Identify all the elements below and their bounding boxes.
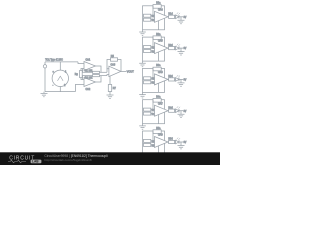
- LED D3: [176, 75, 181, 81]
- wire to LED anode: [174, 78, 177, 80]
- wire port to top rail: [44, 62, 46, 65]
- svg-text:R3d: R3d: [168, 76, 173, 78]
- wire op-amp output: [167, 110, 170, 112]
- logo waveform: [8, 160, 26, 162]
- resistor R4a (feedback, on top edge): [153, 97, 161, 103]
- LED D1: [176, 12, 181, 18]
- footer title text: [44, 154, 107, 162]
- svg-text:0V: 0V: [184, 80, 187, 82]
- svg-text:R1d: R1d: [168, 14, 173, 16]
- ground at LED: [178, 79, 185, 86]
- net label: [184, 142, 187, 144]
- ground at LED: [178, 142, 185, 149]
- wire op-amp ground stub: [158, 146, 160, 155]
- svg-text:OA1: OA1: [86, 59, 91, 62]
- footer bar: [0, 152, 220, 165]
- resistor R5a (feedback, on top edge): [153, 128, 161, 134]
- wire thermocouple top terminal: [59, 62, 61, 70]
- resistor R1c (input): [144, 18, 157, 22]
- wire op-amp ground stub: [158, 52, 160, 61]
- svg-text:OA6: OA6: [158, 71, 163, 74]
- wire resistor outputs to op-amp inputs: [151, 47, 155, 51]
- wire op-amp output: [167, 16, 170, 18]
- wire row1 to OA3 -: [107, 69, 109, 73]
- svg-text:R2d: R2d: [168, 45, 173, 47]
- wire LED cathode to net flag: [179, 78, 183, 80]
- comparator stage 5: frame wire loop: [143, 131, 165, 155]
- svg-text:0V: 0V: [184, 111, 187, 113]
- wire resistor outputs to op-amp inputs: [151, 141, 155, 145]
- wire top rail: [45, 61, 78, 63]
- resistor R4b (input): [144, 108, 157, 112]
- svg-text:0V: 0V: [184, 142, 187, 144]
- wire feedback from inverting input up to top edge: [152, 37, 154, 47]
- svg-text:OA3: OA3: [111, 63, 116, 66]
- svg-text:TC1 Type K 25C: TC1 Type K 25C: [45, 59, 63, 62]
- wire to LED anode: [174, 47, 177, 49]
- resistor Rg (gain): [75, 69, 83, 80]
- svg-text:R3a: R3a: [156, 65, 161, 67]
- svg-text:LAB: LAB: [32, 160, 39, 164]
- op-amp OA3: [109, 63, 121, 76]
- svg-text:0V: 0V: [184, 48, 187, 50]
- svg-text:OA8: OA8: [158, 134, 163, 137]
- wire port to bottom rail: [44, 68, 46, 92]
- wire OA1 output: [96, 66, 102, 72]
- comparator stage 2: frame wire loop: [143, 37, 165, 61]
- resistor R2: [84, 75, 107, 80]
- wire OA1 - to row1: [83, 69, 85, 73]
- wire op-amp ground stub: [158, 115, 160, 124]
- ground at frame corner: [139, 124, 146, 130]
- svg-text:http://circuitlab.com/c/5qgdmb: http://circuitlab.com/c/5qgdmbkum8: [44, 158, 92, 162]
- wire LED cathode to net flag: [179, 47, 183, 49]
- net label: [184, 17, 187, 19]
- svg-text:0V: 0V: [184, 17, 187, 19]
- resistor R1a (feedback, on top edge): [153, 3, 161, 9]
- LED D4: [176, 106, 181, 112]
- resistor R5d (output series): [168, 139, 174, 144]
- op-amp OA6: [155, 71, 169, 85]
- wire OA2 - to row2: [83, 76, 85, 80]
- wire to LED anode: [174, 16, 177, 18]
- svg-text:OA5: OA5: [158, 40, 163, 43]
- resistor R5b (input): [144, 139, 157, 143]
- svg-text:R2a: R2a: [156, 34, 161, 36]
- svg-text:OA4: OA4: [158, 8, 163, 11]
- wire resistor outputs to op-amp inputs: [151, 110, 155, 114]
- resistor R2b (input): [144, 46, 157, 50]
- ground at frame corner: [139, 61, 146, 67]
- comparator stage 3: frame wire loop: [143, 68, 165, 92]
- svg-text:R5a: R5a: [156, 128, 161, 130]
- CircuitLab logo: [9, 156, 35, 162]
- wire resistor outputs to op-amp inputs: [151, 78, 155, 82]
- resistor R4c (input): [144, 112, 157, 116]
- resistor R5c (input): [144, 143, 157, 147]
- svg-text:R2 10k: R2 10k: [85, 77, 93, 80]
- wire bottom rail: [45, 91, 75, 93]
- wire OA2 - input stub: [83, 79, 85, 81]
- net label: [184, 80, 187, 82]
- svg-text:R4a: R4a: [156, 97, 161, 99]
- net label: [184, 48, 187, 50]
- resistor R2a (feedback, on top edge): [153, 34, 161, 40]
- ground at frame corner: [139, 155, 146, 161]
- LED D5: [176, 138, 181, 144]
- wire OA1 - input stub: [83, 68, 85, 70]
- wire op-amp ground stub: [158, 21, 160, 30]
- wire top rail to OA1 +: [78, 62, 84, 64]
- wire op-amp ground stub: [158, 83, 160, 92]
- wire resistor outputs to op-amp inputs: [151, 16, 155, 20]
- op-amp OA8: [155, 134, 169, 148]
- wire feedback from inverting input up to top edge: [152, 6, 154, 16]
- resistor R2d (output series): [168, 45, 174, 50]
- logo LAB badge: [31, 160, 42, 164]
- ground below R7: [107, 95, 114, 98]
- svg-text:R1a: R1a: [156, 3, 161, 5]
- wire op-amp output: [167, 78, 170, 80]
- resistor R5 (feedback): [111, 55, 118, 61]
- svg-text:R4d: R4d: [168, 107, 173, 109]
- wire feedback from inverting input up to top edge: [152, 131, 154, 141]
- wire LED cathode to net flag: [179, 110, 183, 112]
- op-amp OA4: [155, 8, 169, 22]
- wire OA3 output: [121, 70, 126, 72]
- ground at LED: [178, 111, 185, 118]
- svg-text:R5d: R5d: [168, 139, 173, 141]
- wire row2 to OA3 +: [107, 75, 109, 76]
- ground main left: [41, 92, 48, 97]
- wire op-amp output: [167, 47, 170, 49]
- net flag port: [43, 65, 46, 68]
- resistor R3d (output series): [168, 76, 174, 81]
- resistor R2c (input): [144, 50, 157, 54]
- wire LED cathode to net flag: [179, 16, 183, 18]
- svg-text:OA2: OA2: [86, 88, 91, 91]
- ground at frame corner: [139, 92, 146, 98]
- wire feedback from inverting input up to top edge: [152, 69, 154, 79]
- svg-text:VOUT: VOUT: [127, 70, 134, 73]
- resistor R4d (output series): [168, 107, 174, 112]
- ground at frame corner: [139, 30, 146, 36]
- wire to LED anode: [174, 141, 177, 143]
- LED D2: [176, 44, 181, 50]
- resistor R1: [84, 69, 107, 73]
- resistor R1b (input): [144, 14, 157, 18]
- wire op-amp output: [167, 141, 170, 143]
- comparator stage 1: frame wire loop: [143, 6, 165, 30]
- op-amp OA1: [84, 59, 96, 71]
- resistor R3a (feedback, on top edge): [153, 65, 161, 71]
- op-amp OA5: [155, 40, 169, 54]
- resistor R7: [108, 85, 116, 92]
- ground at LED: [178, 48, 185, 55]
- wire OA3 + bias to ground: [109, 76, 111, 95]
- net label: [184, 111, 187, 113]
- wire LED cathode to net flag: [179, 141, 183, 143]
- resistor R3b (input): [144, 77, 157, 81]
- wire feedback loop OA3: [107, 60, 121, 72]
- thermocouple TC1: [52, 70, 68, 87]
- wire to LED anode: [174, 110, 177, 112]
- comparator stage 4: frame wire loop: [143, 100, 165, 124]
- ground at LED: [178, 17, 185, 24]
- op-amp OA7: [155, 102, 169, 116]
- resistor R3c (input): [144, 81, 157, 85]
- wire bottom rail riser to OA2 +: [75, 85, 84, 92]
- op-amp OA2: [84, 78, 96, 92]
- svg-text:OA7: OA7: [158, 102, 163, 105]
- wire OA2 output: [96, 76, 102, 82]
- wire feedback from inverting input up to top edge: [152, 100, 154, 110]
- resistor R1d (output series): [168, 14, 174, 19]
- wire thermocouple bottom terminal: [59, 87, 61, 92]
